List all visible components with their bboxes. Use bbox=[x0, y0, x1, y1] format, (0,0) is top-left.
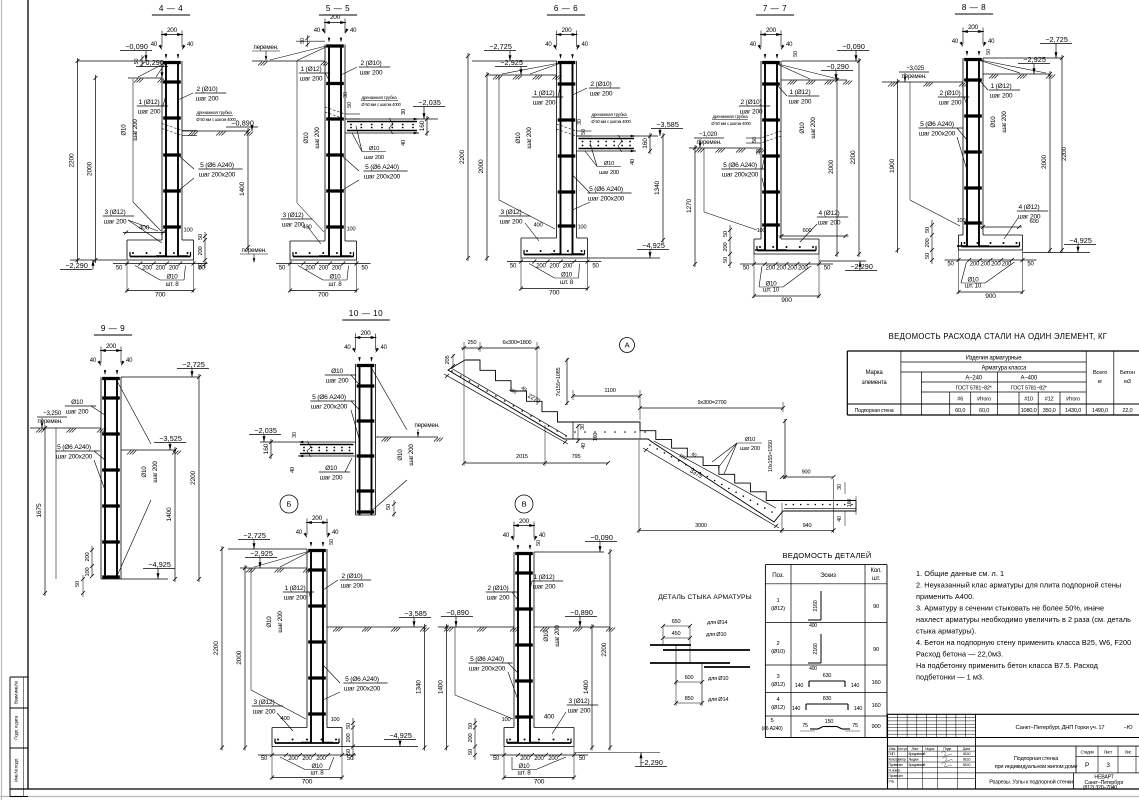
svg-text:−0,290: −0,290 bbox=[141, 58, 164, 67]
svg-text:40: 40 bbox=[401, 140, 407, 146]
svg-text:Ø10: Ø10 bbox=[799, 122, 806, 134]
svg-text:перемен.: перемен. bbox=[242, 247, 267, 254]
svg-text:30: 30 bbox=[756, 149, 762, 155]
svg-text:160: 160 bbox=[263, 443, 270, 454]
svg-text:На подбетонку применить бет: На подбетонку применить бетон класса В7.… bbox=[916, 661, 1099, 670]
svg-text:140: 140 bbox=[792, 706, 801, 712]
svg-text:шаг 200: шаг 200 bbox=[818, 220, 841, 227]
svg-text:−2,725: −2,725 bbox=[489, 42, 512, 51]
svg-text:6 — 6: 6 — 6 bbox=[554, 4, 578, 13]
svg-text:40: 40 bbox=[187, 42, 194, 48]
svg-text:200: 200 bbox=[534, 756, 544, 762]
svg-text:50: 50 bbox=[75, 581, 81, 587]
svg-text:50: 50 bbox=[592, 264, 599, 270]
svg-text:6х300=1800: 6х300=1800 bbox=[503, 340, 532, 346]
svg-text:1 (Ø12): 1 (Ø12) bbox=[991, 83, 1012, 90]
svg-text:1400: 1400 bbox=[239, 182, 246, 196]
svg-text:Кол.: Кол. bbox=[870, 568, 882, 574]
svg-text:Ø10: Ø10 bbox=[543, 630, 550, 642]
svg-text:400: 400 bbox=[809, 623, 817, 629]
svg-text:5 (Ø6 А240): 5 (Ø6 А240) bbox=[365, 164, 399, 171]
svg-text:50: 50 bbox=[347, 102, 353, 108]
svg-text:−0,090: −0,090 bbox=[590, 533, 613, 542]
svg-text:шт. 10: шт. 10 bbox=[763, 287, 780, 294]
svg-text:3000: 3000 bbox=[695, 523, 707, 529]
svg-text:шаг 200х200: шаг 200х200 bbox=[311, 404, 348, 411]
svg-text:−2,290: −2,290 bbox=[65, 261, 88, 270]
svg-text:22,0: 22,0 bbox=[1122, 408, 1132, 414]
svg-text:1490,0: 1490,0 bbox=[1092, 408, 1108, 414]
svg-text:7 — 7: 7 — 7 bbox=[763, 4, 787, 13]
svg-text:ВЕДОМОСТЬ РАСХОДА СТАЛИ НА: ВЕДОМОСТЬ РАСХОДА СТАЛИ НА ОДИН ЭЛЕМЕНТ,… bbox=[889, 332, 1108, 341]
svg-text:шаг 200: шаг 200 bbox=[554, 625, 561, 647]
svg-text:2160: 2160 bbox=[813, 643, 819, 654]
svg-text:шаг 200: шаг 200 bbox=[990, 93, 1013, 100]
svg-text:50: 50 bbox=[581, 129, 587, 135]
svg-text:50: 50 bbox=[723, 231, 729, 237]
svg-text:Изделия арматурные: Изделия арматурные bbox=[966, 356, 1023, 362]
svg-text:−0,090: −0,090 bbox=[125, 42, 148, 51]
svg-text:2 (Ø10): 2 (Ø10) bbox=[361, 60, 382, 67]
svg-text:для Ø10: для Ø10 bbox=[706, 632, 726, 638]
svg-text:60,0: 60,0 bbox=[979, 408, 989, 414]
svg-text:600: 600 bbox=[685, 675, 694, 681]
svg-text:шаг 200: шаг 200 bbox=[1001, 111, 1008, 133]
svg-text:9 — 9: 9 — 9 bbox=[101, 324, 125, 333]
svg-text:140: 140 bbox=[854, 706, 863, 712]
svg-text:Ø 50 мм с шагом 4000: Ø 50 мм с шагом 4000 bbox=[711, 121, 751, 126]
svg-text:Ø10: Ø10 bbox=[561, 272, 573, 279]
svg-text:1340: 1340 bbox=[416, 680, 423, 694]
svg-text:−2,290: −2,290 bbox=[640, 758, 663, 767]
svg-text:2200: 2200 bbox=[213, 641, 220, 655]
svg-text:50: 50 bbox=[752, 137, 758, 143]
svg-text:08.10: 08.10 bbox=[963, 752, 971, 756]
svg-text:Итого: Итого bbox=[1066, 397, 1080, 403]
svg-text:5 (Ø6 А240): 5 (Ø6 А240) bbox=[723, 162, 757, 169]
svg-text:Ø10: Ø10 bbox=[266, 616, 273, 628]
svg-text:дренажная трубка: дренажная трубка bbox=[361, 95, 397, 100]
svg-text:2000: 2000 bbox=[828, 160, 835, 174]
svg-text:50: 50 bbox=[925, 253, 931, 259]
svg-text:элемента: элемента bbox=[862, 380, 888, 386]
svg-text:шаг 200х200: шаг 200х200 bbox=[199, 172, 236, 179]
svg-text:кг: кг bbox=[1098, 379, 1102, 385]
svg-text:08.10: 08.10 bbox=[963, 758, 971, 762]
svg-text:при индивидуальном жилом до: при индивидуальном жилом доме bbox=[995, 764, 1078, 770]
svg-text:900: 900 bbox=[781, 297, 792, 304]
svg-text:шт. 8: шт. 8 bbox=[166, 281, 180, 288]
svg-text:08.10: 08.10 bbox=[963, 763, 971, 767]
svg-text:2000: 2000 bbox=[236, 650, 243, 664]
svg-text:5 (Ø6 А240): 5 (Ø6 А240) bbox=[345, 676, 379, 683]
svg-text:1 (Ø12): 1 (Ø12) bbox=[790, 89, 811, 96]
svg-text:шт. 8: шт. 8 bbox=[518, 770, 532, 777]
svg-text:применить А400.: применить А400. bbox=[916, 592, 974, 601]
svg-text:шаг 200: шаг 200 bbox=[66, 409, 89, 416]
svg-text:Инв.№ подл.: Инв.№ подл. bbox=[14, 758, 19, 782]
svg-text:шаг 200: шаг 200 bbox=[282, 222, 305, 229]
svg-text:50: 50 bbox=[1027, 262, 1034, 268]
svg-text:2000: 2000 bbox=[87, 162, 94, 176]
svg-text:700: 700 bbox=[534, 779, 545, 786]
svg-text:50: 50 bbox=[468, 749, 474, 755]
svg-text:−0,890: −0,890 bbox=[570, 608, 593, 617]
svg-text:5: 5 bbox=[770, 718, 773, 724]
svg-text:шаг 200: шаг 200 bbox=[810, 117, 817, 139]
svg-text:шаг 200: шаг 200 bbox=[300, 76, 323, 83]
svg-text:50: 50 bbox=[361, 266, 368, 272]
svg-text:Ø10: Ø10 bbox=[71, 399, 83, 406]
svg-text:100: 100 bbox=[578, 225, 587, 231]
svg-text:Ø10: Ø10 bbox=[397, 449, 404, 461]
svg-text:3 (Ø12): 3 (Ø12) bbox=[283, 212, 304, 219]
svg-text:900: 900 bbox=[871, 724, 880, 730]
svg-text:10 — 10: 10 — 10 bbox=[349, 309, 383, 318]
svg-text:1270: 1270 bbox=[686, 199, 693, 213]
svg-text:200: 200 bbox=[318, 266, 328, 272]
svg-text:100: 100 bbox=[183, 228, 192, 234]
svg-text:50: 50 bbox=[198, 234, 204, 240]
svg-text:1675: 1675 bbox=[36, 503, 43, 517]
svg-text:700: 700 bbox=[302, 779, 313, 786]
svg-text:1 (Ø12): 1 (Ø12) bbox=[139, 99, 160, 106]
svg-text:Ø10: Ø10 bbox=[369, 146, 379, 152]
svg-text:1340: 1340 bbox=[654, 181, 661, 195]
svg-text:шаг 200: шаг 200 bbox=[364, 155, 384, 161]
svg-text:шаг 200: шаг 200 bbox=[740, 446, 760, 452]
svg-text:40: 40 bbox=[786, 42, 793, 48]
svg-text:400: 400 bbox=[280, 716, 289, 722]
svg-text:Б: Б bbox=[287, 500, 292, 509]
svg-text:Взам.инв.№: Взам.инв.№ bbox=[14, 681, 19, 704]
svg-text:160: 160 bbox=[847, 499, 853, 508]
svg-text:стыка арматуры).: стыка арматуры). bbox=[916, 627, 976, 636]
svg-text:40: 40 bbox=[126, 358, 133, 364]
svg-text:50: 50 bbox=[986, 49, 992, 55]
svg-text:50: 50 bbox=[116, 266, 123, 272]
svg-text:#12: #12 bbox=[1045, 397, 1054, 403]
svg-text:200: 200 bbox=[970, 262, 980, 268]
svg-text:600: 600 bbox=[802, 228, 811, 234]
svg-text:900: 900 bbox=[985, 293, 996, 300]
svg-text:Подп. и дата: Подп. и дата bbox=[14, 716, 19, 740]
svg-text:шаг 200: шаг 200 bbox=[939, 100, 962, 107]
svg-text:−3,250: −3,250 bbox=[43, 410, 62, 417]
svg-text:Дата: Дата bbox=[963, 747, 970, 751]
svg-text:200: 200 bbox=[561, 27, 572, 34]
svg-text:нахлест арматуры необходимо: нахлест арматуры необходимо увеличить в … bbox=[916, 615, 1131, 624]
svg-text:200: 200 bbox=[155, 266, 165, 272]
svg-text:2200: 2200 bbox=[601, 642, 608, 656]
svg-text:шт. 8: шт. 8 bbox=[311, 770, 325, 777]
svg-text:шаг 200: шаг 200 bbox=[500, 219, 523, 226]
svg-text:40: 40 bbox=[988, 39, 995, 45]
svg-text:200: 200 bbox=[519, 518, 530, 525]
svg-text:−4,925: −4,925 bbox=[642, 241, 665, 250]
svg-text:3: 3 bbox=[776, 674, 779, 680]
svg-text:−2,290: −2,290 bbox=[850, 262, 873, 271]
svg-text:400: 400 bbox=[533, 223, 542, 229]
svg-text:(Ø12): (Ø12) bbox=[771, 682, 785, 688]
svg-text:200: 200 bbox=[106, 343, 117, 350]
svg-text:200: 200 bbox=[468, 734, 474, 743]
svg-text:Ø10: Ø10 bbox=[745, 437, 755, 443]
svg-text:200: 200 bbox=[332, 266, 342, 272]
svg-text:№док.: №док. bbox=[925, 747, 935, 751]
svg-text:Лис: Лис bbox=[1125, 750, 1132, 755]
svg-text:А−400: А−400 bbox=[1021, 376, 1038, 382]
svg-text:Ø10: Ø10 bbox=[325, 465, 337, 472]
svg-text:7х155=1085: 7х155=1085 bbox=[556, 367, 562, 396]
svg-text:2 (Ø10): 2 (Ø10) bbox=[197, 86, 218, 93]
svg-text:200: 200 bbox=[360, 330, 371, 337]
svg-text:2200: 2200 bbox=[190, 471, 197, 485]
svg-text:90: 90 bbox=[873, 647, 879, 653]
svg-text:200: 200 bbox=[169, 266, 179, 272]
svg-text:30: 30 bbox=[292, 432, 298, 438]
svg-text:−Ю: −Ю bbox=[1124, 725, 1133, 731]
svg-text:200: 200 bbox=[798, 266, 808, 272]
svg-text:(812) 320−7040: (812) 320−7040 bbox=[1083, 785, 1117, 791]
svg-text:(Ø12): (Ø12) bbox=[771, 606, 785, 612]
svg-text:200: 200 bbox=[925, 239, 931, 248]
svg-text:1400: 1400 bbox=[438, 680, 445, 694]
svg-text:8 — 8: 8 — 8 bbox=[962, 3, 986, 12]
svg-text:450: 450 bbox=[672, 631, 681, 637]
svg-text:Подпорная стена: Подпорная стена bbox=[855, 408, 894, 414]
svg-text:100: 100 bbox=[757, 228, 766, 234]
svg-text:795: 795 bbox=[572, 454, 581, 460]
svg-text:4 — 4: 4 — 4 bbox=[159, 4, 183, 13]
svg-text:Ø10: Ø10 bbox=[331, 368, 343, 375]
svg-text:Ø 50 мм с шагом 4000: Ø 50 мм с шагом 4000 bbox=[361, 102, 401, 107]
svg-text:40: 40 bbox=[503, 533, 510, 539]
svg-text:40: 40 bbox=[581, 443, 587, 449]
svg-text:ГОСТ 5781−82*: ГОСТ 5781−82* bbox=[1011, 386, 1048, 392]
svg-text:5 (Ø6 А240): 5 (Ø6 А240) bbox=[312, 394, 346, 401]
svg-text:1400: 1400 bbox=[583, 680, 590, 694]
svg-text:Проверил: Проверил bbox=[889, 763, 903, 767]
svg-text:2 (Ø10): 2 (Ø10) bbox=[940, 90, 961, 97]
svg-text:50: 50 bbox=[824, 266, 831, 272]
svg-text:50: 50 bbox=[468, 723, 474, 729]
svg-text:(#6 А240): (#6 А240) bbox=[762, 726, 783, 732]
svg-text:160: 160 bbox=[871, 703, 880, 709]
svg-text:40: 40 bbox=[539, 533, 546, 539]
svg-text:700: 700 bbox=[549, 290, 560, 297]
svg-text:1900: 1900 bbox=[889, 159, 896, 173]
svg-text:Ø 50 мм с шагом 4000: Ø 50 мм с шагом 4000 bbox=[196, 117, 236, 122]
svg-text:400: 400 bbox=[302, 225, 311, 231]
svg-text:шаг 200: шаг 200 bbox=[314, 127, 321, 149]
svg-text:−0,890: −0,890 bbox=[446, 608, 469, 617]
svg-text:400: 400 bbox=[809, 666, 817, 672]
svg-text:шаг 200: шаг 200 bbox=[533, 584, 556, 591]
svg-text:Ø10: Ø10 bbox=[141, 466, 148, 478]
svg-text:40: 40 bbox=[350, 28, 357, 34]
svg-text:1100: 1100 bbox=[604, 388, 615, 394]
svg-text:−2,725: −2,725 bbox=[182, 360, 205, 369]
svg-text:3. Арматуру в сечении стык: 3. Арматуру в сечении стыковать не более… bbox=[916, 604, 1104, 613]
svg-text:дренажная трубка: дренажная трубка bbox=[712, 114, 748, 119]
svg-text:40: 40 bbox=[90, 358, 97, 364]
svg-text:200: 200 bbox=[167, 27, 178, 34]
svg-text:40: 40 bbox=[151, 42, 158, 48]
svg-text:200: 200 bbox=[312, 515, 323, 522]
svg-text:40: 40 bbox=[582, 42, 589, 48]
svg-text:140: 140 bbox=[851, 683, 860, 689]
svg-text:30: 30 bbox=[580, 424, 586, 430]
svg-text:100: 100 bbox=[957, 218, 966, 224]
svg-text:шаг 200: шаг 200 bbox=[277, 611, 284, 633]
svg-text:40: 40 bbox=[296, 530, 303, 536]
svg-text:10х155=1550: 10х155=1550 bbox=[768, 440, 774, 472]
svg-text:100: 100 bbox=[85, 568, 91, 577]
svg-text:30: 30 bbox=[837, 484, 843, 490]
svg-text:50: 50 bbox=[329, 539, 335, 545]
svg-text:шаг 200: шаг 200 bbox=[152, 461, 159, 483]
svg-text:160: 160 bbox=[419, 120, 426, 131]
svg-text:2. Неуказанный клас арматур: 2. Неуказанный клас арматуры для плита п… bbox=[916, 581, 1121, 590]
svg-text:−2,925: −2,925 bbox=[500, 58, 523, 67]
svg-text:250: 250 bbox=[468, 340, 477, 346]
svg-text:−0,290: −0,290 bbox=[826, 62, 849, 71]
svg-text:шаг 200: шаг 200 bbox=[533, 100, 556, 107]
svg-text:Ø10: Ø10 bbox=[121, 124, 128, 136]
svg-text:200: 200 bbox=[723, 243, 729, 252]
svg-text:1400: 1400 bbox=[166, 507, 173, 521]
svg-text:200: 200 bbox=[968, 24, 979, 31]
svg-text:2000: 2000 bbox=[1041, 155, 1048, 169]
svg-text:−2,035: −2,035 bbox=[254, 426, 277, 435]
svg-text:400: 400 bbox=[544, 714, 555, 721]
svg-text:40: 40 bbox=[381, 345, 388, 351]
svg-text:160: 160 bbox=[593, 433, 599, 442]
svg-text:50: 50 bbox=[947, 262, 954, 268]
svg-text:200: 200 bbox=[776, 266, 786, 272]
svg-text:шаг 200: шаг 200 bbox=[253, 709, 276, 716]
svg-text:шаг 200: шаг 200 bbox=[599, 170, 619, 176]
svg-text:3 (Ø12): 3 (Ø12) bbox=[254, 699, 275, 706]
svg-text:Расход бетона — 22,0м3.: Расход бетона — 22,0м3. bbox=[916, 650, 1003, 659]
svg-text:Бродовский: Бродовский bbox=[909, 763, 926, 767]
svg-text:40: 40 bbox=[314, 28, 321, 34]
svg-text:1. Общие данные см. л. 1: 1. Общие данные см. л. 1 bbox=[916, 569, 1004, 578]
svg-text:шт. 10: шт. 10 bbox=[965, 283, 982, 290]
svg-text:шаг 200: шаг 200 bbox=[326, 378, 349, 385]
svg-text:шаг 200: шаг 200 bbox=[487, 595, 510, 602]
svg-text:шаг 200х200: шаг 200х200 bbox=[722, 172, 759, 179]
svg-text:400: 400 bbox=[139, 225, 150, 232]
svg-text:шаг 200х200: шаг 200х200 bbox=[919, 131, 956, 138]
svg-text:−4,925: −4,925 bbox=[1069, 236, 1092, 245]
svg-text:шаг 200: шаг 200 bbox=[526, 127, 533, 149]
svg-text:Конструктор: Конструктор bbox=[889, 758, 906, 762]
svg-text:40: 40 bbox=[344, 345, 351, 351]
svg-text:5 (Ø6 А240): 5 (Ø6 А240) bbox=[470, 656, 504, 663]
svg-text:50: 50 bbox=[793, 51, 799, 57]
svg-text:2 (Ø10): 2 (Ø10) bbox=[741, 99, 762, 106]
svg-text:шаг 200: шаг 200 bbox=[138, 109, 161, 116]
svg-text:50: 50 bbox=[134, 59, 140, 65]
svg-text:200: 200 bbox=[316, 756, 326, 762]
svg-text:5 (Ø6 А240): 5 (Ø6 А240) bbox=[200, 162, 234, 169]
svg-text:−2,925: −2,925 bbox=[1023, 55, 1046, 64]
svg-text:(Ø12): (Ø12) bbox=[771, 705, 785, 711]
svg-text:Ø10: Ø10 bbox=[515, 132, 522, 144]
svg-text:30: 30 bbox=[401, 109, 407, 115]
svg-text:−3,025: −3,025 bbox=[906, 65, 925, 72]
svg-text:#6: #6 bbox=[957, 397, 963, 403]
svg-text:200: 200 bbox=[548, 756, 558, 762]
svg-text:Ø10: Ø10 bbox=[329, 274, 341, 281]
svg-text:5 — 5: 5 — 5 bbox=[326, 4, 350, 13]
svg-text:30: 30 bbox=[577, 119, 583, 125]
svg-text:ВЕДОМОСТЬ ДЕТАЛЕЙ: ВЕДОМОСТЬ ДЕТАЛЕЙ bbox=[782, 551, 871, 560]
svg-text:В: В bbox=[522, 500, 527, 509]
svg-text:шаг 200: шаг 200 bbox=[408, 444, 415, 466]
svg-text:50: 50 bbox=[743, 266, 750, 272]
svg-text:40: 40 bbox=[332, 530, 339, 536]
svg-text:3 (Ø12): 3 (Ø12) bbox=[569, 698, 590, 705]
svg-text:50: 50 bbox=[346, 723, 352, 729]
svg-text:Эскиз: Эскиз bbox=[820, 572, 836, 579]
svg-text:700: 700 bbox=[318, 292, 329, 299]
svg-text:шаг 200: шаг 200 bbox=[789, 99, 812, 106]
svg-text:шаг 200: шаг 200 bbox=[568, 708, 591, 715]
svg-text:40: 40 bbox=[750, 42, 757, 48]
svg-text:Санкт−Петербург, ДНП Горки: Санкт−Петербург, ДНП Горки уч. 17 bbox=[1016, 725, 1105, 731]
svg-text:ДЕТАЛЬ СТЫКА АРМАТУРЫ: ДЕТАЛЬ СТЫКА АРМАТУРЫ bbox=[658, 594, 752, 601]
svg-text:2000: 2000 bbox=[478, 159, 485, 173]
svg-text:4. Бетон на подпорную стен: 4. Бетон на подпорную стену применить кл… bbox=[916, 638, 1131, 647]
svg-text:200: 200 bbox=[766, 27, 777, 34]
svg-text:40: 40 bbox=[630, 159, 636, 165]
svg-text:600: 600 bbox=[1029, 219, 1038, 225]
svg-text:дренажная трубка: дренажная трубка bbox=[591, 112, 627, 117]
svg-text:Всего: Всего bbox=[1093, 370, 1107, 376]
svg-text:700: 700 bbox=[155, 292, 166, 299]
svg-text:−2,925: −2,925 bbox=[250, 549, 273, 558]
svg-text:шаг 200х200: шаг 200х200 bbox=[344, 686, 381, 693]
svg-text:(Ø10): (Ø10) bbox=[771, 649, 785, 655]
svg-text:100: 100 bbox=[501, 717, 510, 723]
svg-text:150: 150 bbox=[825, 719, 834, 725]
svg-text:2200: 2200 bbox=[69, 153, 76, 167]
svg-text:830: 830 bbox=[823, 696, 832, 702]
svg-text:шаг 200х200: шаг 200х200 bbox=[469, 666, 506, 673]
svg-text:2200: 2200 bbox=[850, 150, 857, 164]
svg-text:перемен.: перемен. bbox=[415, 422, 440, 429]
svg-text:Лист: Лист bbox=[1104, 750, 1113, 755]
svg-text:1: 1 bbox=[776, 598, 779, 604]
svg-text:1 (Ø12): 1 (Ø12) bbox=[534, 90, 555, 97]
svg-text:подбетонки — 1 м3.: подбетонки — 1 м3. bbox=[916, 673, 984, 682]
svg-text:шт. 8: шт. 8 bbox=[329, 281, 343, 288]
svg-text:шаг 200: шаг 200 bbox=[284, 595, 307, 602]
svg-text:200: 200 bbox=[765, 266, 775, 272]
svg-text:200: 200 bbox=[549, 264, 559, 270]
svg-text:2200: 2200 bbox=[459, 150, 466, 164]
svg-text:200: 200 bbox=[85, 553, 91, 562]
svg-text:40: 40 bbox=[952, 39, 959, 45]
svg-text:Н. контр.: Н. контр. bbox=[889, 769, 901, 773]
svg-text:9х300=2700: 9х300=2700 bbox=[698, 400, 727, 406]
svg-text:50: 50 bbox=[510, 264, 517, 270]
svg-text:для Ø14: для Ø14 bbox=[708, 697, 728, 703]
svg-text:−2,035: −2,035 bbox=[418, 98, 441, 107]
